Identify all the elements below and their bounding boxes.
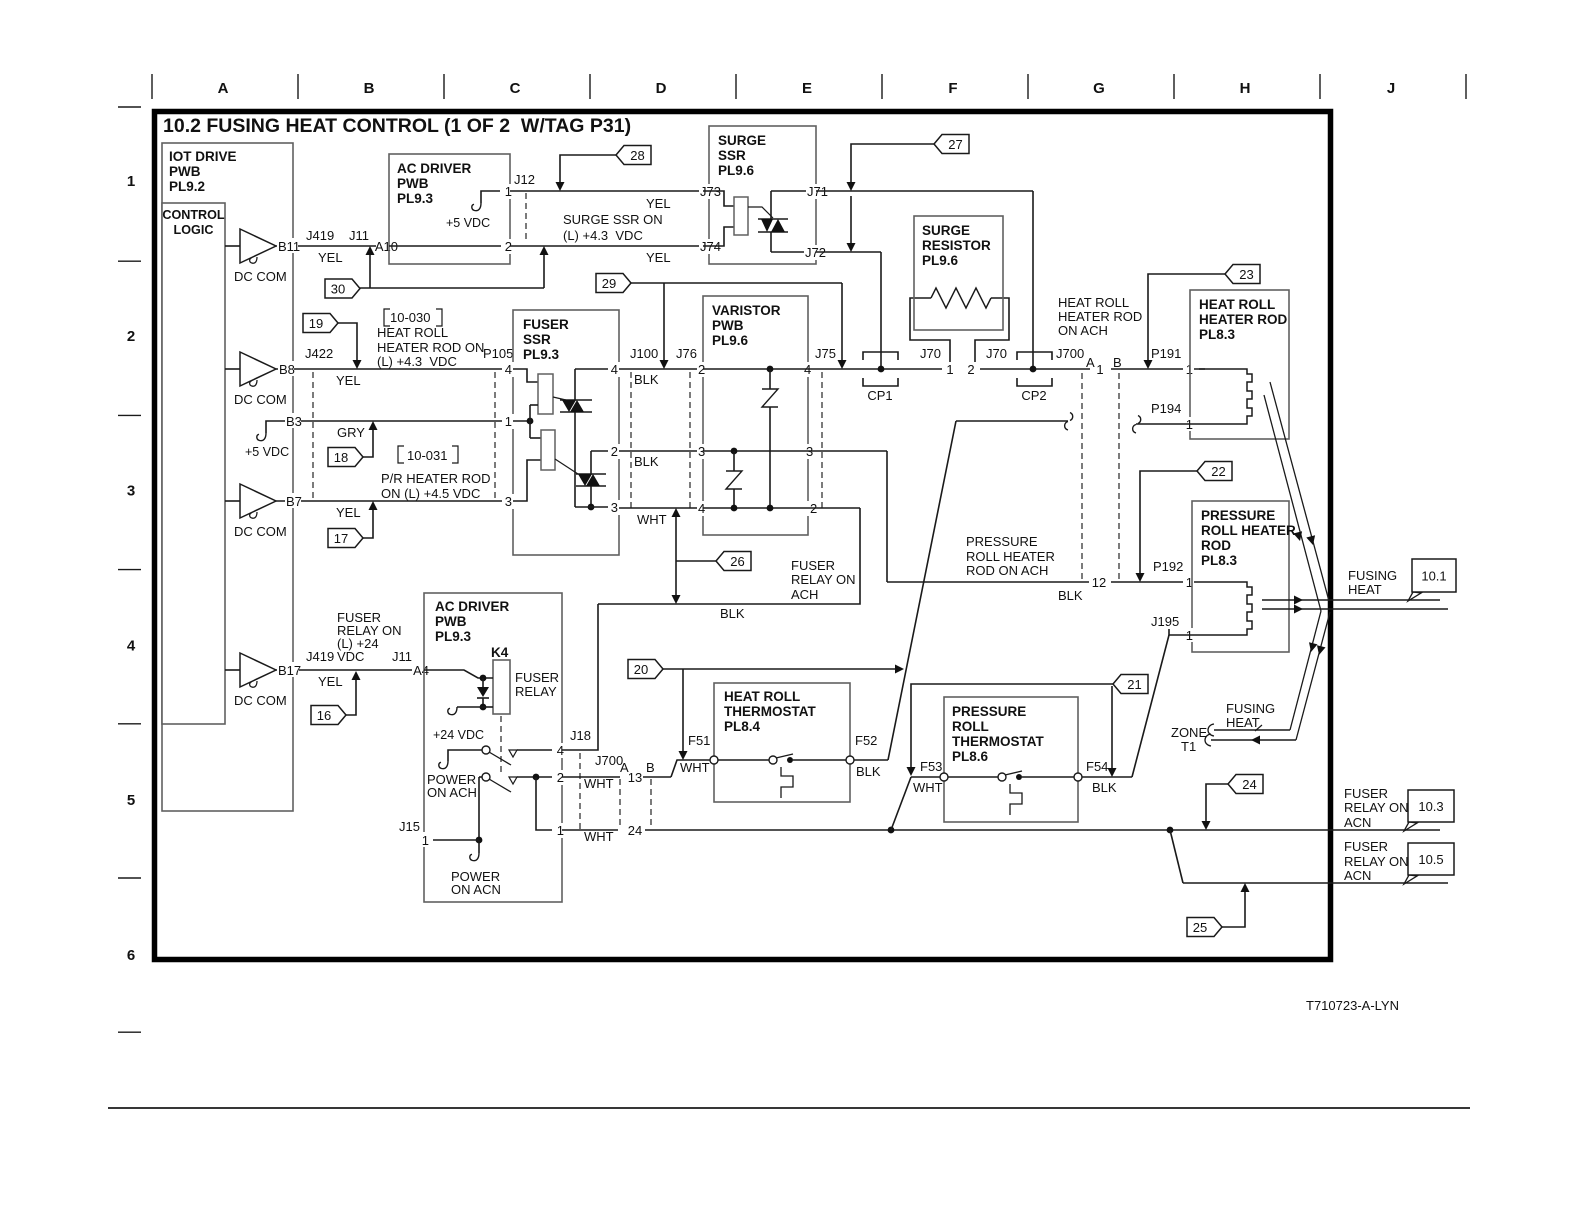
svg-text:BLK: BLK bbox=[1058, 588, 1083, 603]
coil to contacts link (dashed) bbox=[500, 716, 502, 773]
svg-text:F53: F53 bbox=[920, 759, 942, 774]
svg-text:PWB: PWB bbox=[435, 614, 467, 629]
svg-text:23: 23 bbox=[1239, 267, 1253, 282]
HEAT underline tick bbox=[1255, 725, 1262, 731]
svg-text:10-031: 10-031 bbox=[407, 448, 447, 463]
svg-text:2: 2 bbox=[127, 328, 135, 345]
varistor pins left 2,3,4 bbox=[697, 362, 707, 377]
FUSER SSR PL9.3 box bbox=[513, 310, 619, 555]
svg-text:ROLL HEATER: ROLL HEATER bbox=[1201, 523, 1296, 538]
signal flag 21 bbox=[911, 684, 1114, 767]
signal flag 17 bbox=[363, 509, 373, 538]
buffer amp B7 bbox=[225, 500, 240, 502]
wire 3-4 WHT bbox=[619, 507, 703, 509]
svg-text:SSR: SSR bbox=[523, 332, 551, 347]
svg-text:RELAY: RELAY bbox=[515, 684, 557, 699]
svg-text:AC DRIVER: AC DRIVER bbox=[435, 599, 510, 614]
svg-text:CP1: CP1 bbox=[867, 388, 892, 403]
svg-text:YEL: YEL bbox=[336, 373, 361, 388]
wire J71 down to CP2 node bbox=[1032, 191, 1034, 369]
signal flag 27 bbox=[851, 144, 934, 182]
pin A4 bbox=[412, 662, 430, 677]
svg-text:BLK: BLK bbox=[856, 764, 881, 779]
signal flag 26 bbox=[676, 560, 716, 562]
svg-text:19: 19 bbox=[309, 316, 323, 331]
wire B11 to A10 YEL bbox=[276, 245, 389, 247]
svg-text:A: A bbox=[218, 80, 229, 97]
svg-text:P194: P194 bbox=[1151, 401, 1181, 416]
svg-text:27: 27 bbox=[948, 137, 962, 152]
svg-text:B: B bbox=[1113, 355, 1122, 370]
svg-text:+5 VDC: +5 VDC bbox=[245, 445, 289, 459]
AC DRIVER PWB PL9.3 box (bottom) bbox=[424, 593, 562, 902]
svg-text:10.1: 10.1 bbox=[1421, 569, 1446, 584]
svg-text:VDC: VDC bbox=[337, 649, 364, 664]
svg-text:PRESSURE: PRESSURE bbox=[952, 704, 1026, 719]
svg-text:ROD ON ACH: ROD ON ACH bbox=[966, 563, 1048, 578]
wire J12-1 to J73 YEL bbox=[510, 190, 703, 192]
buffer amp B11 bbox=[225, 245, 240, 247]
svg-text:B11: B11 bbox=[278, 239, 300, 254]
column ruler ticks bbox=[151, 74, 153, 99]
svg-text:J70: J70 bbox=[920, 346, 941, 361]
svg-text:PL9.3: PL9.3 bbox=[397, 191, 434, 206]
heat roll heater element bbox=[1199, 369, 1252, 424]
wire 2-3 BLK bbox=[619, 450, 703, 452]
svg-text:J76: J76 bbox=[676, 346, 697, 361]
svg-text:12: 12 bbox=[1092, 575, 1106, 590]
relay contact 2 (J18-2) bbox=[479, 776, 482, 778]
fusing heat diagonal to zone T1 bbox=[1296, 612, 1330, 740]
svg-text:SSR: SSR bbox=[718, 148, 746, 163]
svg-text:DC COM: DC COM bbox=[234, 693, 287, 708]
svg-text:24: 24 bbox=[1242, 777, 1256, 792]
PRESSURE ROLL HEATER ROD PL8.3 box bbox=[1192, 501, 1289, 652]
svg-text:P191: P191 bbox=[1151, 346, 1181, 361]
svg-text:P105: P105 bbox=[483, 346, 513, 361]
svg-text:SURGE: SURGE bbox=[718, 133, 766, 148]
svg-text:HEAT ROLL: HEAT ROLL bbox=[1199, 297, 1275, 312]
chain flag 10.5 bbox=[1404, 875, 1417, 884]
diagonal BLK wire F52 up to P194 link bbox=[888, 421, 956, 760]
svg-text:J70: J70 bbox=[986, 346, 1007, 361]
resistor zigzag bbox=[931, 288, 991, 308]
svg-text:PL9.3: PL9.3 bbox=[435, 629, 472, 644]
svg-text:ROD: ROD bbox=[1201, 538, 1231, 553]
thermostat switch (pressure roll) bbox=[911, 776, 940, 778]
svg-text:J100: J100 bbox=[630, 346, 658, 361]
pin J72 + wire bbox=[771, 251, 816, 253]
chain flag 10.3 bbox=[1404, 822, 1417, 831]
wire J70-2 to J700 bbox=[980, 368, 1090, 370]
varistor element 2 bbox=[731, 448, 738, 455]
svg-text:J18: J18 bbox=[570, 728, 591, 743]
SSR triac bbox=[748, 207, 773, 218]
svg-text:BLK: BLK bbox=[634, 454, 659, 469]
svg-text:BLK: BLK bbox=[1092, 780, 1117, 795]
svg-text:2: 2 bbox=[611, 444, 618, 459]
svg-text:FUSING: FUSING bbox=[1226, 701, 1275, 716]
svg-text:1: 1 bbox=[505, 414, 512, 429]
svg-text:1: 1 bbox=[946, 362, 953, 377]
interconnect curl left (from F52 BLK) bbox=[1070, 413, 1073, 421]
pin J73 bbox=[699, 184, 722, 199]
svg-text:J700: J700 bbox=[1056, 346, 1084, 361]
svg-text:(L) +4.3 VDC: (L) +4.3 VDC bbox=[563, 228, 643, 243]
fuser ssr pin 3 left bbox=[502, 494, 515, 509]
zone T1 double line bbox=[1214, 729, 1290, 731]
svg-text:B7: B7 bbox=[286, 494, 302, 509]
svg-text:13: 13 bbox=[628, 770, 642, 785]
svg-text:PL8.4: PL8.4 bbox=[724, 719, 761, 734]
svg-text:B: B bbox=[646, 760, 655, 775]
jog up to F51 bbox=[671, 760, 714, 777]
svg-text:RELAY ON: RELAY ON bbox=[791, 572, 856, 587]
svg-text:ROLL: ROLL bbox=[952, 719, 989, 734]
wire B17 to A4 YEL bbox=[276, 669, 424, 671]
svg-text:ON ACN: ON ACN bbox=[451, 882, 501, 897]
fuser ssr pin 4 right + wire bbox=[575, 368, 619, 370]
svg-text:J422: J422 bbox=[305, 346, 333, 361]
wire B8 to P105-4 YEL bbox=[276, 368, 513, 370]
svg-text:HEAT: HEAT bbox=[1226, 715, 1260, 730]
svg-text:3: 3 bbox=[505, 494, 512, 509]
+24 VDC supply bbox=[457, 706, 483, 708]
svg-text:28: 28 bbox=[630, 148, 644, 163]
pin A10 bbox=[376, 238, 399, 253]
svg-text:20: 20 bbox=[634, 662, 648, 677]
svg-text:YEL: YEL bbox=[646, 196, 671, 211]
wire from F52 diagonal to curl bbox=[956, 420, 1068, 422]
svg-text:IOT DRIVE: IOT DRIVE bbox=[169, 149, 237, 164]
svg-text:1: 1 bbox=[1096, 362, 1103, 377]
main wire varistor-4 to J70-1 bbox=[808, 368, 942, 370]
svg-text:3: 3 bbox=[127, 483, 135, 500]
fuser ssr pin 4 left bbox=[502, 362, 515, 377]
svg-text:J: J bbox=[1387, 80, 1395, 97]
svg-text:HEAT ROLL: HEAT ROLL bbox=[724, 689, 800, 704]
svg-text:FUSER: FUSER bbox=[523, 317, 569, 332]
svg-text:HEAT ROLL: HEAT ROLL bbox=[1058, 295, 1129, 310]
fuser ssr pin 2 right + wire bbox=[591, 450, 619, 452]
wire 2 to J74 YEL bbox=[510, 245, 703, 247]
IOT DRIVE PWB PL9.2 box bbox=[162, 143, 293, 811]
svg-text:PL8.3: PL8.3 bbox=[1199, 327, 1236, 342]
CP1 jumper brackets bbox=[863, 352, 898, 360]
svg-text:DC COM: DC COM bbox=[234, 524, 287, 539]
wire B3 to P105-1 GRY bbox=[285, 420, 513, 422]
svg-text:YEL: YEL bbox=[318, 250, 343, 265]
svg-text:P/R HEATER ROD: P/R HEATER ROD bbox=[381, 471, 491, 486]
svg-text:BLK: BLK bbox=[634, 372, 659, 387]
svg-text:T1: T1 bbox=[1181, 739, 1196, 754]
svg-text:PRESSURE: PRESSURE bbox=[1201, 508, 1275, 523]
svg-text:PL9.6: PL9.6 bbox=[712, 333, 749, 348]
svg-text:WHT: WHT bbox=[680, 760, 710, 775]
svg-text:HEATER ROD: HEATER ROD bbox=[1058, 309, 1142, 324]
drawing frame bbox=[155, 112, 1331, 960]
pin 2 bbox=[501, 239, 513, 254]
svg-text:4: 4 bbox=[505, 362, 512, 377]
svg-text:30: 30 bbox=[331, 282, 345, 297]
varistor pins right 4,3,2 bbox=[803, 362, 813, 377]
svg-text:ACN: ACN bbox=[1344, 815, 1371, 830]
svg-text:ROLL HEATER: ROLL HEATER bbox=[966, 549, 1055, 564]
fusing heat diagonal from heat roll rod bbox=[1270, 382, 1329, 601]
svg-text:ACH: ACH bbox=[791, 587, 818, 602]
svg-text:PWB: PWB bbox=[169, 164, 201, 179]
svg-text:BLK: BLK bbox=[720, 606, 745, 621]
svg-text:DC COM: DC COM bbox=[234, 269, 287, 284]
varistor internal wires bbox=[703, 368, 808, 370]
signal flag 22 bbox=[1140, 471, 1198, 573]
svg-text:18: 18 bbox=[334, 450, 348, 465]
internal wire A10 to pin 2 bbox=[389, 245, 510, 247]
svg-text:4: 4 bbox=[611, 362, 618, 377]
svg-text:FUSER: FUSER bbox=[791, 558, 835, 573]
svg-text:H: H bbox=[1240, 80, 1251, 97]
signal flag 16 bbox=[346, 679, 356, 715]
footer rule bbox=[108, 1107, 1470, 1109]
svg-text:HEAT: HEAT bbox=[1348, 582, 1382, 597]
svg-text:P192: P192 bbox=[1153, 559, 1183, 574]
J422 connector dashes bbox=[312, 372, 314, 501]
svg-text:CONTROL: CONTROL bbox=[162, 208, 225, 222]
pin J71 + wire bbox=[771, 190, 816, 192]
signal flag 18 bbox=[363, 429, 373, 457]
HEAT ROLL THERMOSTAT PL8.4 box bbox=[714, 683, 850, 802]
svg-text:PL9.6: PL9.6 bbox=[718, 163, 755, 178]
surge resistor leads bbox=[910, 298, 950, 362]
svg-text:16: 16 bbox=[317, 708, 331, 723]
wire contact2 to J18-1 bbox=[536, 777, 562, 830]
wire varistor-2 to corner bbox=[808, 507, 860, 509]
svg-text:ON (L) +4.5 VDC: ON (L) +4.5 VDC bbox=[381, 486, 480, 501]
svg-text:FUSING: FUSING bbox=[1348, 568, 1397, 583]
svg-text:6: 6 bbox=[127, 947, 135, 964]
svg-text:PL8.6: PL8.6 bbox=[952, 749, 989, 764]
fusing heat output double line bbox=[1262, 599, 1440, 601]
svg-text:AC DRIVER: AC DRIVER bbox=[397, 161, 472, 176]
svg-text:+5 VDC: +5 VDC bbox=[446, 216, 490, 230]
+5 VDC source at B3 bbox=[266, 421, 285, 433]
zone T1 hooks bbox=[1208, 724, 1214, 736]
svg-text:SURGE SSR ON: SURGE SSR ON bbox=[563, 212, 663, 227]
signal flag 20 bbox=[663, 668, 897, 670]
wire A4 to coil + diode bbox=[424, 670, 493, 678]
svg-text:VARISTOR: VARISTOR bbox=[712, 303, 781, 318]
svg-text:J419: J419 bbox=[306, 649, 334, 664]
svg-text:PL9.2: PL9.2 bbox=[169, 179, 205, 194]
CONTROL LOGIC box bbox=[162, 203, 225, 724]
svg-text:22: 22 bbox=[1211, 464, 1225, 479]
fuser ssr pin 1 left bbox=[502, 414, 515, 429]
pin F54 bbox=[1074, 773, 1082, 781]
wire to P191 bbox=[1111, 368, 1205, 370]
TAG 10-030 note bbox=[384, 309, 390, 326]
svg-text:B3: B3 bbox=[286, 414, 302, 429]
svg-text:10.5: 10.5 bbox=[1418, 852, 1443, 867]
svg-text:29: 29 bbox=[602, 276, 616, 291]
fuser ssr triac 1 bbox=[553, 397, 566, 400]
svg-text:E: E bbox=[802, 80, 812, 97]
svg-text:WHT: WHT bbox=[584, 829, 614, 844]
wire J18-2 to 13 WHT bbox=[562, 776, 620, 778]
svg-text:FUSER: FUSER bbox=[515, 670, 559, 685]
svg-text:WHT: WHT bbox=[913, 780, 943, 795]
svg-text:10.3: 10.3 bbox=[1418, 799, 1443, 814]
wire J18-1 row 24 WHT bbox=[562, 829, 618, 831]
svg-text:J75: J75 bbox=[815, 346, 836, 361]
svg-text:THERMOSTAT: THERMOSTAT bbox=[724, 704, 816, 719]
svg-text:YEL: YEL bbox=[318, 674, 343, 689]
relay contact 1 (J18-4) bbox=[482, 746, 490, 754]
svg-text:PL9.3: PL9.3 bbox=[523, 347, 560, 362]
svg-text:SURGE: SURGE bbox=[922, 223, 970, 238]
svg-text:ON ACH: ON ACH bbox=[1058, 323, 1108, 338]
+5 VDC hook bbox=[481, 191, 500, 203]
fuser ssr input block 1 bbox=[513, 369, 538, 382]
thermostat switch (heat roll) bbox=[710, 756, 718, 764]
svg-text:B17: B17 bbox=[278, 663, 301, 678]
svg-text:YEL: YEL bbox=[336, 505, 361, 520]
svg-text:F51: F51 bbox=[688, 733, 710, 748]
svg-text:1: 1 bbox=[127, 173, 135, 190]
svg-text:F52: F52 bbox=[855, 733, 877, 748]
svg-text:C: C bbox=[510, 80, 521, 97]
fuser ssr triac 2 bbox=[555, 459, 578, 474]
svg-text:24: 24 bbox=[628, 823, 642, 838]
svg-text:HEAT ROLL: HEAT ROLL bbox=[377, 325, 448, 340]
svg-text:ON ACH: ON ACH bbox=[427, 785, 477, 800]
svg-text:YEL: YEL bbox=[646, 250, 671, 265]
svg-text:J11: J11 bbox=[349, 228, 369, 243]
svg-text:2: 2 bbox=[967, 362, 974, 377]
VARISTOR PWB PL9.6 box bbox=[703, 296, 808, 535]
branch to second ACN wire bbox=[1167, 827, 1174, 834]
svg-text:PWB: PWB bbox=[712, 318, 744, 333]
wire J72 down to CP1 node bbox=[880, 252, 882, 369]
svg-text:J12: J12 bbox=[514, 172, 535, 187]
svg-text:B: B bbox=[364, 80, 375, 97]
svg-text:26: 26 bbox=[730, 554, 744, 569]
P105 connector dashes bbox=[494, 372, 496, 501]
svg-text:RESISTOR: RESISTOR bbox=[922, 238, 991, 253]
wire varistor-3 to corner bbox=[808, 450, 887, 452]
POWER ON ACH source bbox=[448, 750, 482, 761]
signal flag 30 bbox=[360, 287, 544, 289]
svg-text:ZONE: ZONE bbox=[1171, 725, 1207, 740]
PRESSURE ROLL THERMOSTAT PL8.6 box bbox=[944, 697, 1078, 822]
svg-text:CP2: CP2 bbox=[1021, 388, 1046, 403]
pin J74 bbox=[699, 239, 722, 254]
svg-text:F54: F54 bbox=[1086, 759, 1108, 774]
pin F52 bbox=[846, 756, 854, 764]
wire 4-2 BLK bbox=[619, 368, 703, 370]
svg-text:ACN: ACN bbox=[1344, 868, 1371, 883]
diode CR bbox=[477, 687, 489, 697]
SURGE SSR PL9.6 box bbox=[709, 126, 816, 264]
svg-text:DC COM: DC COM bbox=[234, 392, 287, 407]
wire J18-4 up to BLK bus bbox=[562, 604, 598, 750]
svg-text:J195: J195 bbox=[1151, 614, 1179, 629]
svg-text:PL8.3: PL8.3 bbox=[1201, 553, 1238, 568]
SSR input block bbox=[703, 191, 734, 206]
junction to F53 bbox=[888, 827, 895, 834]
J100 dashes bbox=[630, 372, 632, 508]
svg-text:4: 4 bbox=[127, 637, 136, 654]
svg-text:WHT: WHT bbox=[637, 512, 667, 527]
svg-text:J700: J700 bbox=[595, 753, 623, 768]
TAG 10-031 note bbox=[398, 446, 404, 463]
svg-text:HEATER ROD ON: HEATER ROD ON bbox=[377, 340, 484, 355]
svg-text:+24 VDC: +24 VDC bbox=[433, 728, 484, 742]
svg-text:FUSER: FUSER bbox=[1344, 786, 1388, 801]
svg-text:17: 17 bbox=[334, 531, 348, 546]
buffer amp B8 bbox=[225, 368, 240, 370]
svg-text:(L) +4.3 VDC: (L) +4.3 VDC bbox=[377, 354, 457, 369]
signal flag 29 bbox=[631, 282, 842, 284]
row ruler ticks bbox=[118, 106, 141, 108]
wire B7 to P105-3 YEL bbox=[276, 500, 513, 502]
signal flag 23 bbox=[1148, 274, 1226, 360]
svg-text:K4: K4 bbox=[491, 645, 509, 660]
AC DRIVER PWB PL9.3 box (top) bbox=[389, 154, 510, 264]
svg-text:3: 3 bbox=[611, 500, 618, 515]
svg-text:J15: J15 bbox=[399, 819, 420, 834]
svg-text:HEATER ROD: HEATER ROD bbox=[1199, 312, 1288, 327]
svg-text:1: 1 bbox=[422, 833, 429, 848]
svg-text:WHT: WHT bbox=[584, 776, 614, 791]
varistor element 1 bbox=[767, 366, 774, 373]
fuser ssr pin 3 right + wire bbox=[575, 506, 619, 508]
svg-text:D: D bbox=[656, 80, 667, 97]
pressure roll heater element bbox=[1201, 582, 1252, 635]
svg-text:LOGIC: LOGIC bbox=[174, 223, 214, 237]
svg-text:PRESSURE: PRESSURE bbox=[966, 534, 1038, 549]
svg-text:21: 21 bbox=[1127, 677, 1141, 692]
svg-text:G: G bbox=[1093, 80, 1105, 97]
svg-text:T710723-A-LYN: T710723-A-LYN bbox=[1306, 998, 1399, 1013]
svg-text:FUSER: FUSER bbox=[1344, 839, 1388, 854]
SURGE RESISTOR PL9.6 box bbox=[914, 216, 1003, 330]
svg-text:10-030: 10-030 bbox=[390, 310, 430, 325]
signal flag 25 bbox=[1222, 892, 1245, 927]
CP2 jumper brackets bbox=[1017, 352, 1052, 360]
svg-text:5: 5 bbox=[127, 792, 135, 809]
svg-text:10.2 FUSING HEAT CONTROL (1 OF: 10.2 FUSING HEAT CONTROL (1 OF 2 W/TAG P… bbox=[163, 115, 631, 137]
svg-text:F: F bbox=[948, 80, 957, 97]
svg-text:25: 25 bbox=[1193, 920, 1207, 935]
wire to P192 pin 12 bbox=[887, 581, 1089, 583]
signal flag 24 bbox=[1206, 784, 1229, 821]
fuser ssr input block 2 bbox=[513, 420, 530, 422]
HEAT ROLL HEATER ROD PL8.3 box bbox=[1190, 290, 1289, 439]
BLK bus to varistor side bbox=[598, 508, 860, 604]
chain flag 10.1 bbox=[1408, 592, 1421, 601]
signal flag 28 bbox=[560, 155, 624, 182]
buffer amp B17 bbox=[225, 669, 240, 671]
svg-text:J11: J11 bbox=[392, 649, 412, 664]
svg-text:RELAY ON: RELAY ON bbox=[1344, 800, 1409, 815]
J76 dashes bbox=[689, 372, 691, 508]
signal flag 19 bbox=[338, 323, 357, 361]
svg-text:RELAY ON: RELAY ON bbox=[1344, 854, 1409, 869]
svg-text:PL9.6: PL9.6 bbox=[922, 253, 959, 268]
pin 1 bbox=[501, 184, 513, 199]
svg-text:B8: B8 bbox=[279, 362, 295, 377]
J12 connector dashes bbox=[525, 193, 527, 243]
